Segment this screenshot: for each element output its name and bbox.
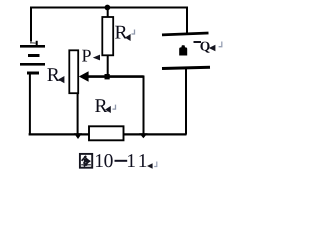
label P trailing mark <box>93 55 100 61</box>
wire top bus <box>30 7 187 9</box>
svg-text:Q: Q <box>200 38 211 53</box>
junction square (R4 lead meets wiper wire) <box>105 74 110 79</box>
capacitor bottom plate <box>162 67 210 68</box>
wire battery bottom lead <box>29 75 31 135</box>
wire R4 top lead <box>107 8 109 18</box>
capacitor top plate <box>162 33 209 35</box>
svg-text:11: 11 <box>126 151 150 172</box>
caption text 10-11 <box>94 151 150 172</box>
svg-text:10: 10 <box>94 151 113 172</box>
label R2 (left, beside battery) <box>47 65 65 86</box>
potentiometer P <box>69 50 78 93</box>
label R4 (bottom resistor) <box>95 96 116 117</box>
svg-text:R: R <box>115 22 128 43</box>
battery <box>20 45 45 75</box>
svg-text:P: P <box>82 46 92 66</box>
resistor R4 (vertical, top) <box>102 17 113 55</box>
wire bottom bus right <box>124 133 187 135</box>
wire P bottom lead <box>77 94 79 134</box>
wire R4 bottom lead <box>107 55 109 76</box>
caption trailing mark <box>147 162 157 169</box>
charge marker (lock glyph) <box>179 45 187 55</box>
wire bottom bus left <box>29 133 89 135</box>
arrow P lead into bottom bus <box>74 133 82 139</box>
resistor R (horizontal, bottom) <box>89 126 124 140</box>
arrow wiper wire into bottom bus <box>139 133 147 138</box>
wire capacitor top lead <box>186 7 188 34</box>
wire wiper down segment <box>143 76 145 134</box>
wire capacitor bottom lead <box>185 69 187 135</box>
svg-text:R: R <box>95 96 108 117</box>
caption 图 character (drawn) <box>80 154 92 168</box>
label -Q <box>194 38 222 53</box>
wiper arrow of potentiometer <box>79 71 144 81</box>
wire battery top lead <box>30 7 32 42</box>
label R4 (top resistor) <box>115 22 135 43</box>
svg-text:R: R <box>47 65 60 86</box>
junction dot on top bus <box>105 5 111 11</box>
